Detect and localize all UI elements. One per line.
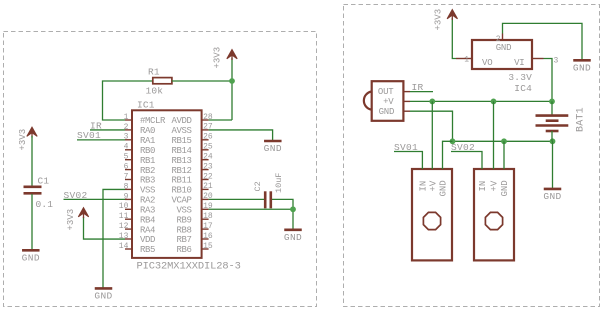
svg-text:VDD: VDD: [140, 235, 155, 245]
svg-text:GND: GND: [496, 43, 512, 53]
svg-text:RA3: RA3: [140, 206, 155, 216]
svg-text:3: 3: [554, 57, 559, 66]
svg-text:PIC32MX1XXDIL28-3: PIC32MX1XXDIL28-3: [137, 261, 241, 273]
svg-text:IC4: IC4: [514, 83, 532, 94]
svg-text:7: 7: [124, 172, 129, 181]
svg-text:5: 5: [124, 153, 129, 162]
svg-text:RA1: RA1: [140, 136, 155, 146]
svg-text:SV01: SV01: [394, 142, 418, 153]
svg-text:10uF: 10uF: [274, 173, 284, 193]
svg-text:3.3V: 3.3V: [508, 72, 532, 83]
svg-text:C2: C2: [253, 181, 263, 191]
svg-text:+V: +V: [383, 97, 394, 107]
svg-text:4: 4: [124, 143, 129, 152]
svg-text:GND: GND: [284, 232, 302, 243]
svg-text:GND: GND: [94, 290, 112, 301]
svg-text:IC1: IC1: [137, 100, 155, 111]
svg-text:IN: IN: [478, 181, 488, 192]
svg-text:VSS: VSS: [140, 186, 155, 196]
svg-text:GND: GND: [379, 107, 395, 117]
svg-text:23: 23: [203, 162, 213, 171]
svg-text:12: 12: [119, 222, 129, 231]
svg-text:RB0: RB0: [140, 146, 155, 156]
svg-text:GND: GND: [543, 191, 561, 202]
svg-text:SV02: SV02: [451, 142, 475, 153]
svg-text:GND: GND: [22, 252, 40, 263]
svg-text:AVSS: AVSS: [171, 126, 191, 136]
svg-text:17: 17: [203, 222, 213, 231]
svg-text:RB3: RB3: [140, 176, 155, 186]
svg-text:25: 25: [203, 143, 213, 152]
svg-text:+V: +V: [429, 180, 439, 191]
svg-text:6: 6: [124, 163, 129, 172]
svg-text:18: 18: [203, 212, 213, 221]
svg-text:+3V3: +3V3: [212, 47, 222, 69]
svg-text:14: 14: [119, 242, 129, 251]
svg-text:RA4: RA4: [140, 225, 155, 235]
svg-text:2: 2: [496, 35, 501, 44]
svg-text:RB10: RB10: [171, 186, 191, 196]
svg-text:RB1: RB1: [140, 156, 155, 166]
svg-text:24: 24: [203, 153, 213, 162]
svg-text:+3V3: +3V3: [18, 129, 28, 151]
svg-text:GND: GND: [439, 180, 449, 196]
svg-text:0.1: 0.1: [36, 199, 54, 210]
svg-text:GND: GND: [573, 62, 591, 73]
svg-text:RB2: RB2: [140, 166, 155, 176]
svg-text:RA0: RA0: [140, 126, 155, 136]
svg-text:+V: +V: [490, 180, 500, 191]
svg-text:RB15: RB15: [171, 136, 191, 146]
svg-text:GND: GND: [500, 180, 510, 196]
svg-text:C1: C1: [38, 176, 50, 187]
svg-text:SV02: SV02: [64, 190, 88, 201]
svg-text:SV01: SV01: [77, 130, 101, 141]
svg-text:22: 22: [203, 172, 213, 181]
svg-text:15: 15: [203, 242, 213, 251]
svg-text:VSS: VSS: [176, 206, 191, 216]
svg-text:+3V3: +3V3: [66, 209, 76, 231]
svg-text:IN: IN: [419, 181, 429, 192]
svg-text:RB9: RB9: [176, 215, 191, 225]
svg-text:RB4: RB4: [140, 215, 155, 225]
svg-text:VO: VO: [482, 58, 492, 68]
svg-text:RB5: RB5: [140, 245, 155, 255]
svg-text:RB13: RB13: [171, 156, 191, 166]
svg-text:+3V3: +3V3: [433, 9, 443, 31]
svg-text:RB8: RB8: [176, 225, 191, 235]
svg-text:R1: R1: [148, 67, 160, 78]
svg-text:GND: GND: [264, 143, 282, 154]
svg-text:10: 10: [119, 202, 129, 211]
svg-text:#MCLR: #MCLR: [140, 116, 166, 126]
svg-text:AVDD: AVDD: [171, 116, 191, 126]
svg-text:VCAP: VCAP: [171, 196, 191, 206]
svg-text:IR: IR: [412, 82, 424, 93]
svg-text:10k: 10k: [146, 86, 164, 97]
svg-text:16: 16: [203, 232, 213, 241]
svg-text:26: 26: [203, 133, 213, 142]
svg-text:BAT1: BAT1: [575, 107, 586, 132]
svg-text:VI: VI: [514, 58, 524, 68]
svg-text:RB11: RB11: [171, 176, 191, 186]
svg-text:OUT: OUT: [378, 87, 394, 97]
svg-text:1: 1: [464, 56, 469, 65]
svg-text:RA2: RA2: [140, 196, 155, 206]
svg-text:RB6: RB6: [176, 245, 191, 255]
svg-text:21: 21: [203, 182, 213, 191]
svg-text:RB7: RB7: [176, 235, 191, 245]
svg-text:11: 11: [119, 212, 129, 221]
svg-text:RB14: RB14: [171, 146, 191, 156]
svg-text:RB12: RB12: [171, 166, 191, 176]
